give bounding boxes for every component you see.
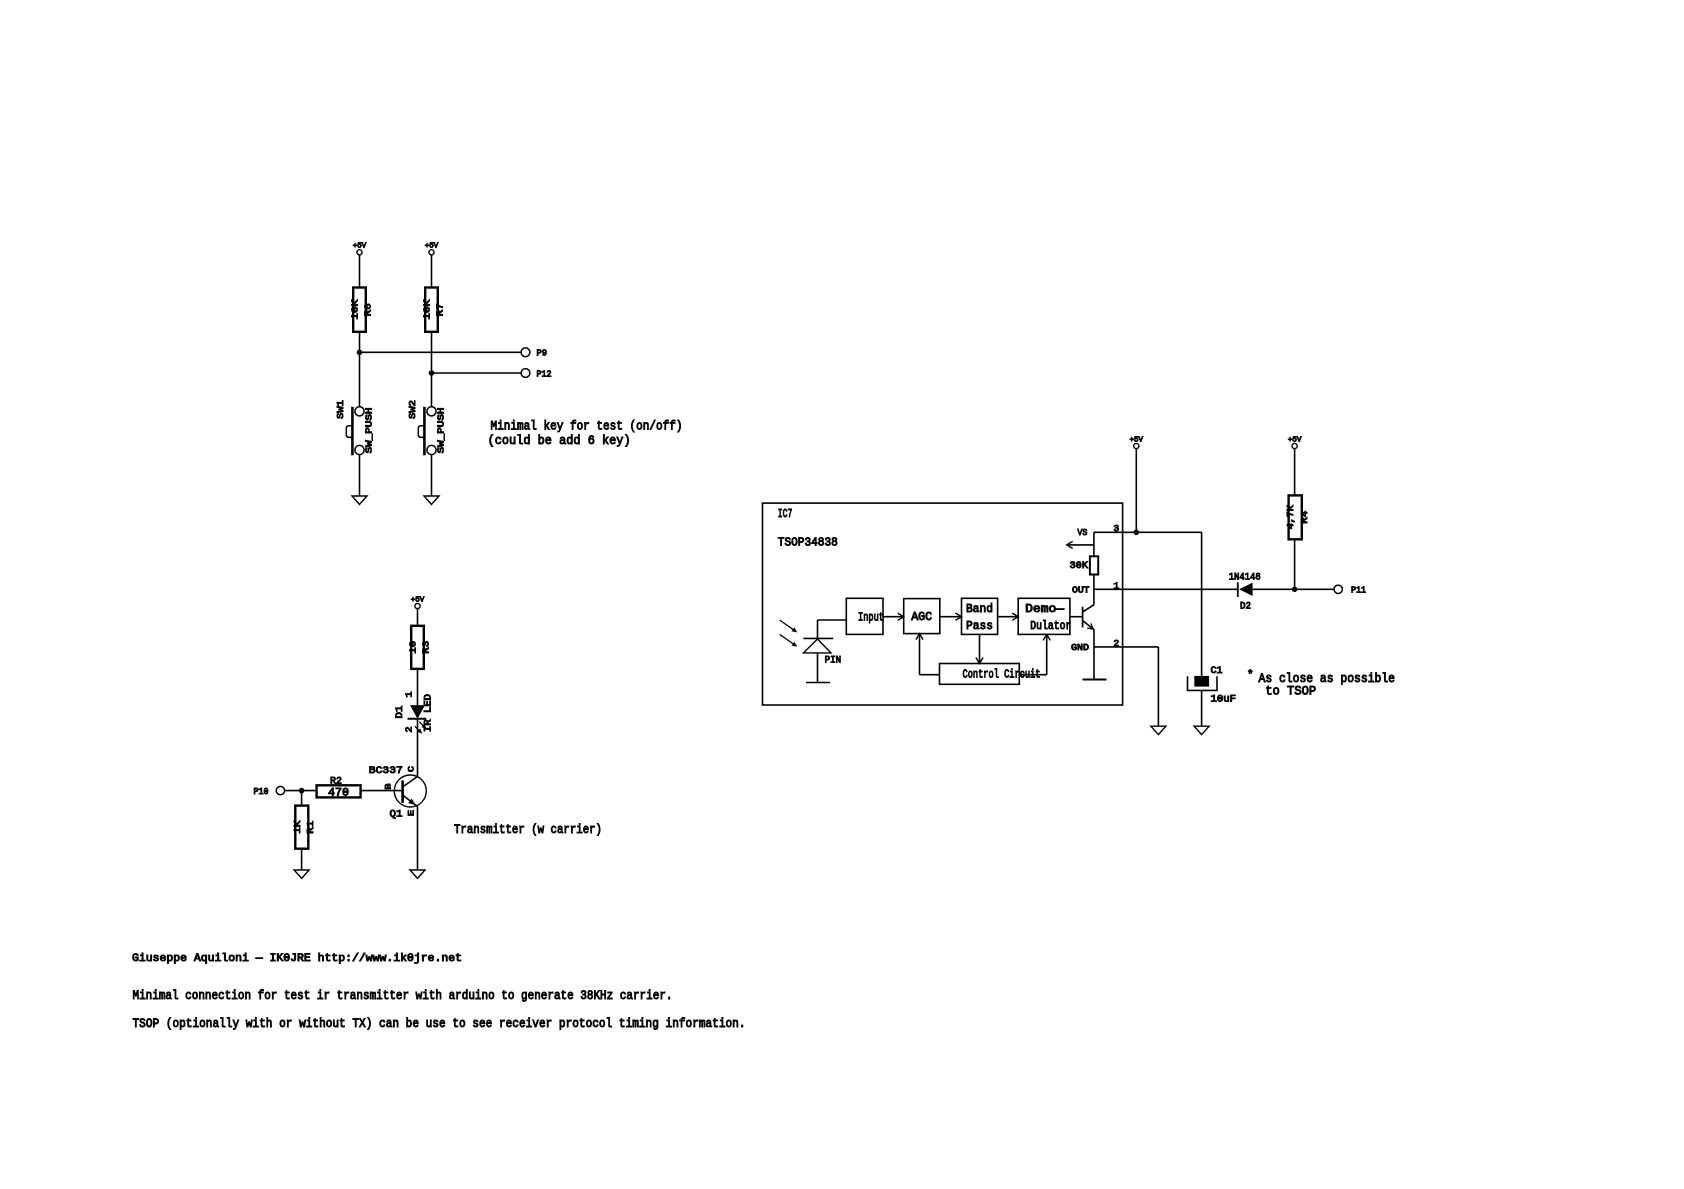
svg-text:R6: R6 <box>363 303 374 316</box>
svg-text:10: 10 <box>408 640 419 653</box>
svg-text:+5V: +5V <box>1130 436 1144 444</box>
svg-text:B: B <box>385 783 394 789</box>
svg-text:Demo—: Demo— <box>1025 602 1065 616</box>
svg-text:P11: P11 <box>1351 586 1366 596</box>
svg-text:Minimal connection for test ir: Minimal connection for test ir transmitt… <box>133 988 673 1003</box>
svg-text:P10: P10 <box>254 787 269 797</box>
svg-text:10uF: 10uF <box>1211 694 1237 705</box>
svg-text:C: C <box>408 766 417 772</box>
svg-text:SW_PUSH: SW_PUSH <box>364 408 375 454</box>
svg-text:4,7K: 4,7K <box>1285 505 1296 529</box>
svg-text:Q1: Q1 <box>390 809 403 821</box>
svg-text:+5V: +5V <box>1288 436 1302 444</box>
svg-text:1N4148: 1N4148 <box>1229 572 1261 583</box>
svg-text:AGC: AGC <box>911 610 932 624</box>
svg-text:PIN: PIN <box>825 655 842 666</box>
svg-text:D2: D2 <box>1240 601 1251 612</box>
svg-text:SW_PUSH: SW_PUSH <box>436 408 447 454</box>
svg-text:C1: C1 <box>1211 666 1223 677</box>
svg-text:R1: R1 <box>305 820 316 833</box>
svg-text:R3: R3 <box>421 640 432 653</box>
svg-text:SW1: SW1 <box>335 400 346 419</box>
svg-text:*: * <box>1247 670 1254 682</box>
svg-text:470: 470 <box>328 787 349 799</box>
svg-text:VS: VS <box>1077 527 1087 538</box>
svg-text:E: E <box>408 810 417 816</box>
svg-text:SW2: SW2 <box>407 400 418 419</box>
svg-text:Dulator: Dulator <box>1030 619 1071 633</box>
svg-text:Input: Input <box>858 611 884 625</box>
svg-text:Pass: Pass <box>966 619 993 633</box>
svg-text:1: 1 <box>405 692 415 698</box>
svg-text:1K: 1K <box>292 820 303 833</box>
svg-text:Band: Band <box>966 602 993 616</box>
svg-text:+5V: +5V <box>425 243 439 251</box>
svg-text:30K: 30K <box>1070 561 1089 572</box>
svg-text:10K: 10K <box>350 299 361 319</box>
svg-text:(could be add 6 key): (could be add 6 key) <box>488 433 631 448</box>
svg-text:Transmitter (w carrier): Transmitter (w carrier) <box>454 822 602 837</box>
svg-text:P9: P9 <box>537 349 548 359</box>
svg-text:GND: GND <box>1071 642 1089 653</box>
svg-text:to TSOP: to TSOP <box>1265 683 1316 698</box>
svg-text:2: 2 <box>405 727 415 733</box>
svg-text:BC337: BC337 <box>369 765 403 777</box>
svg-text:TSOP34838: TSOP34838 <box>778 536 838 550</box>
svg-text:+5V: +5V <box>411 596 425 604</box>
svg-text:IC7: IC7 <box>778 507 793 521</box>
svg-text:Giuseppe Aquiloni — IK0JRE htt: Giuseppe Aquiloni — IK0JRE http://www.ik… <box>132 953 462 965</box>
svg-text:OUT: OUT <box>1072 584 1090 595</box>
svg-text:10K: 10K <box>422 299 433 319</box>
svg-text:TSOP (optionally with or witho: TSOP (optionally with or without TX) can… <box>133 1016 746 1031</box>
svg-text:P12: P12 <box>537 369 552 379</box>
svg-text:Minimal key for test (on/off): Minimal key for test (on/off) <box>491 419 683 434</box>
svg-text:R2: R2 <box>330 775 342 787</box>
svg-text:R4: R4 <box>1299 510 1310 523</box>
svg-text:D1: D1 <box>395 706 406 719</box>
svg-text:+5V: +5V <box>353 243 367 251</box>
svg-text:R7: R7 <box>435 303 446 316</box>
